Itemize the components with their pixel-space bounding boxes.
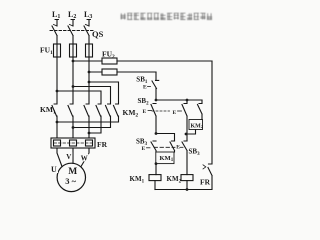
svg-text:E: E bbox=[142, 146, 146, 152]
svg-text:FR: FR bbox=[97, 140, 108, 149]
svg-text:QS: QS bbox=[92, 29, 104, 39]
svg-text:E: E bbox=[143, 109, 147, 115]
svg-text:FR: FR bbox=[200, 178, 211, 187]
svg-text:V: V bbox=[66, 153, 71, 161]
svg-text:KM2: KM2 bbox=[191, 123, 204, 129]
svg-text:E: E bbox=[143, 85, 147, 91]
svg-text:E: E bbox=[173, 110, 177, 116]
svg-text:U: U bbox=[51, 165, 57, 174]
svg-text:W: W bbox=[81, 154, 88, 162]
svg-text:3 ~: 3 ~ bbox=[65, 176, 76, 186]
svg-text:E: E bbox=[176, 145, 180, 151]
